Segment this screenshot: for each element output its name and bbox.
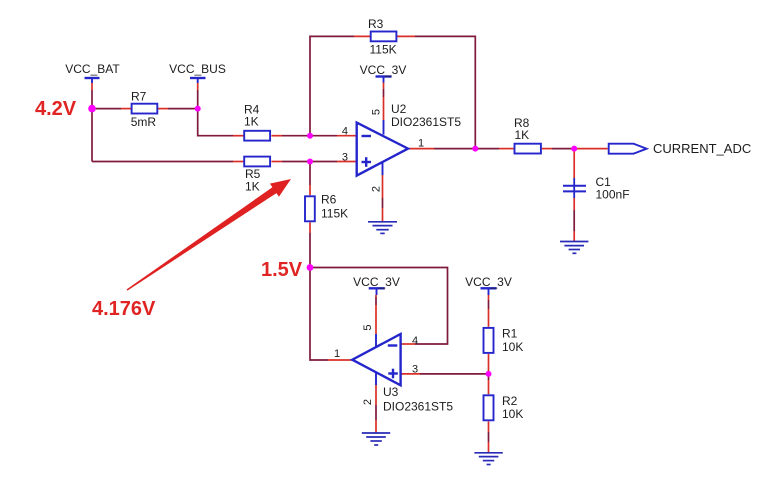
wire: node E to R8	[475, 148, 513, 150]
wire: output to node E	[434, 148, 475, 150]
svg-text:5mR: 5mR	[131, 115, 157, 129]
node E junction dot	[472, 146, 478, 152]
wire: feedback left vertical node C up to R3 row	[310, 36, 354, 135]
wire: VCC_3V down to R1	[488, 288, 490, 327]
wire: pin stub R3 right	[396, 35, 415, 37]
ground under U2	[368, 222, 397, 234]
U3 pin number 5	[362, 324, 374, 330]
svg-text:3: 3	[412, 364, 418, 376]
U3 pin number 3	[412, 364, 418, 376]
svg-text:115K: 115K	[370, 43, 397, 57]
svg-text:CURRENT_ADC: CURRENT_ADC	[653, 141, 751, 156]
wire: pin stub R3 left	[354, 35, 371, 37]
svg-text:VCC_3V: VCC_3V	[465, 275, 512, 289]
wire: U3 pin3 row to R1/R2 node	[401, 373, 489, 375]
svg-text:4.2V: 4.2V	[35, 98, 77, 120]
wire: node D down through R6	[309, 162, 311, 196]
U2 pin number 5	[371, 109, 383, 115]
node D junction dot	[307, 159, 313, 165]
svg-text:1K: 1K	[244, 115, 259, 129]
power VCC_3V R1	[465, 275, 512, 289]
wire: node D to U2 pin 3	[310, 161, 357, 163]
resistor R6	[305, 193, 348, 222]
svg-text:1.5V: 1.5V	[261, 259, 303, 281]
svg-text:5: 5	[362, 324, 374, 330]
op-amp U3	[352, 334, 453, 414]
svg-text:R1: R1	[502, 327, 518, 341]
U3 pin number 1	[334, 348, 340, 360]
svg-text:1: 1	[418, 138, 424, 150]
resistor R3	[368, 17, 397, 57]
svg-text:VCC_BUS: VCC_BUS	[169, 62, 226, 76]
svg-text:10K: 10K	[502, 340, 523, 354]
annotation 4.2V	[35, 98, 77, 120]
op-amp U2	[357, 102, 462, 176]
wire: pin stub R5 left	[233, 161, 244, 163]
ground under R2	[474, 453, 502, 465]
power VCC_3V U2	[360, 63, 407, 83]
svg-text:VCC_3V: VCC_3V	[353, 275, 400, 289]
wire: node G to R2 top	[488, 374, 490, 394]
wire: U3 pin4 stub	[401, 343, 415, 345]
svg-text:DIO2361ST5: DIO2361ST5	[383, 400, 453, 414]
svg-text:VCC_BAT: VCC_BAT	[65, 62, 120, 76]
svg-text:DIO2361ST5: DIO2361ST5	[391, 115, 461, 129]
svg-text:4: 4	[412, 335, 418, 347]
resistor R7	[131, 89, 158, 129]
node A junction dot 4.2V	[88, 105, 96, 113]
node F junction dot	[571, 146, 577, 152]
resistor R1	[484, 327, 524, 355]
resistor R8	[514, 116, 541, 154]
ground under C1	[560, 242, 588, 254]
wire: 1.5V node down to U3 output row	[310, 268, 328, 361]
wire: 1.5V node right and down to U3 pin4	[310, 268, 448, 345]
wire: R8 right pin to node F	[542, 148, 574, 150]
wire: pin stub R7 right	[158, 108, 169, 110]
ground under U3	[362, 433, 390, 445]
svg-text:R2: R2	[502, 394, 518, 408]
U2 pin number 1	[418, 138, 424, 150]
node 1.5V junction dot	[307, 264, 314, 271]
node G junction dot	[486, 371, 492, 377]
svg-text:5: 5	[371, 109, 383, 115]
resistor R5	[244, 157, 270, 194]
resistor R4	[244, 103, 270, 141]
U3 pin number 4	[412, 335, 418, 347]
svg-text:R7: R7	[131, 89, 147, 103]
wire: U3 pin1 stub	[328, 359, 352, 361]
resistor R2	[484, 394, 524, 421]
svg-text:115K: 115K	[321, 207, 348, 221]
wire: left vertical row to R5	[92, 161, 233, 163]
svg-text:R3: R3	[368, 17, 384, 31]
wire: node B down and right to R4	[198, 109, 233, 136]
svg-text:2: 2	[362, 399, 374, 405]
svg-text:U3: U3	[383, 385, 399, 399]
capacitor C1	[563, 175, 630, 202]
power VCC_BAT	[65, 62, 120, 90]
U2 pin number 4	[342, 126, 348, 138]
svg-text:4: 4	[342, 126, 348, 138]
annotation red arrow	[127, 179, 291, 291]
wire: R6 bottom to 1.5V node	[309, 222, 311, 267]
annotation 1.5V	[261, 259, 303, 281]
U3 pin number 2	[362, 399, 374, 405]
svg-text:1: 1	[334, 348, 340, 360]
wire: node C to U2 pin 4	[310, 135, 357, 137]
wire: pin stub R4 left	[233, 135, 244, 137]
svg-text:VCC_3V: VCC_3V	[360, 63, 407, 77]
wire: pin stub R7 left	[121, 108, 131, 110]
wire: R5 right pin stub	[272, 161, 283, 163]
svg-text:100nF: 100nF	[596, 188, 630, 202]
wire: U3 pin5 power	[375, 295, 377, 348]
wire: R4 to node C	[282, 135, 310, 137]
wire: U2 pin2 to ground	[382, 162, 384, 222]
power VCC_3V U3	[353, 275, 400, 295]
svg-text:1K: 1K	[515, 128, 530, 142]
svg-text:10K: 10K	[502, 407, 523, 421]
wire: U3 pin2 to ground	[375, 372, 377, 432]
port CURRENT_ADC	[609, 141, 752, 156]
wire: R1 bottom to node G	[488, 354, 490, 374]
svg-text:4.176V: 4.176V	[92, 298, 156, 320]
svg-text:2: 2	[371, 186, 383, 192]
U2 pin number 3	[342, 151, 348, 163]
wire: node A horizontal to R7 left	[92, 108, 121, 110]
svg-text:R6: R6	[321, 193, 337, 207]
wire: C1 top lead	[573, 149, 575, 178]
annotation 4.176V	[92, 298, 156, 320]
svg-text:3: 3	[342, 151, 348, 163]
wire: R7 right to node B	[168, 108, 198, 110]
U2 pin number 2	[371, 186, 383, 192]
wire: R3 right to right vertical down to output row	[415, 36, 475, 148]
wire: VCC_BAT vertical down to node A	[91, 90, 93, 162]
wire: node F to port	[574, 148, 608, 150]
wire: R4 right pin stub	[272, 135, 283, 137]
wire: U2 output pin 1	[408, 148, 434, 150]
wire: C1 bottom lead to ground	[573, 198, 575, 242]
power VCC_BUS	[169, 62, 226, 109]
wire: R2 bottom to ground	[488, 421, 490, 453]
node B junction dot	[195, 106, 201, 112]
svg-text:1K: 1K	[245, 180, 260, 194]
node C junction dot	[307, 133, 313, 139]
wire: U2 pin5 power	[383, 83, 385, 135]
wire: R5 to node D	[282, 161, 310, 163]
svg-text:U2: U2	[391, 102, 407, 116]
